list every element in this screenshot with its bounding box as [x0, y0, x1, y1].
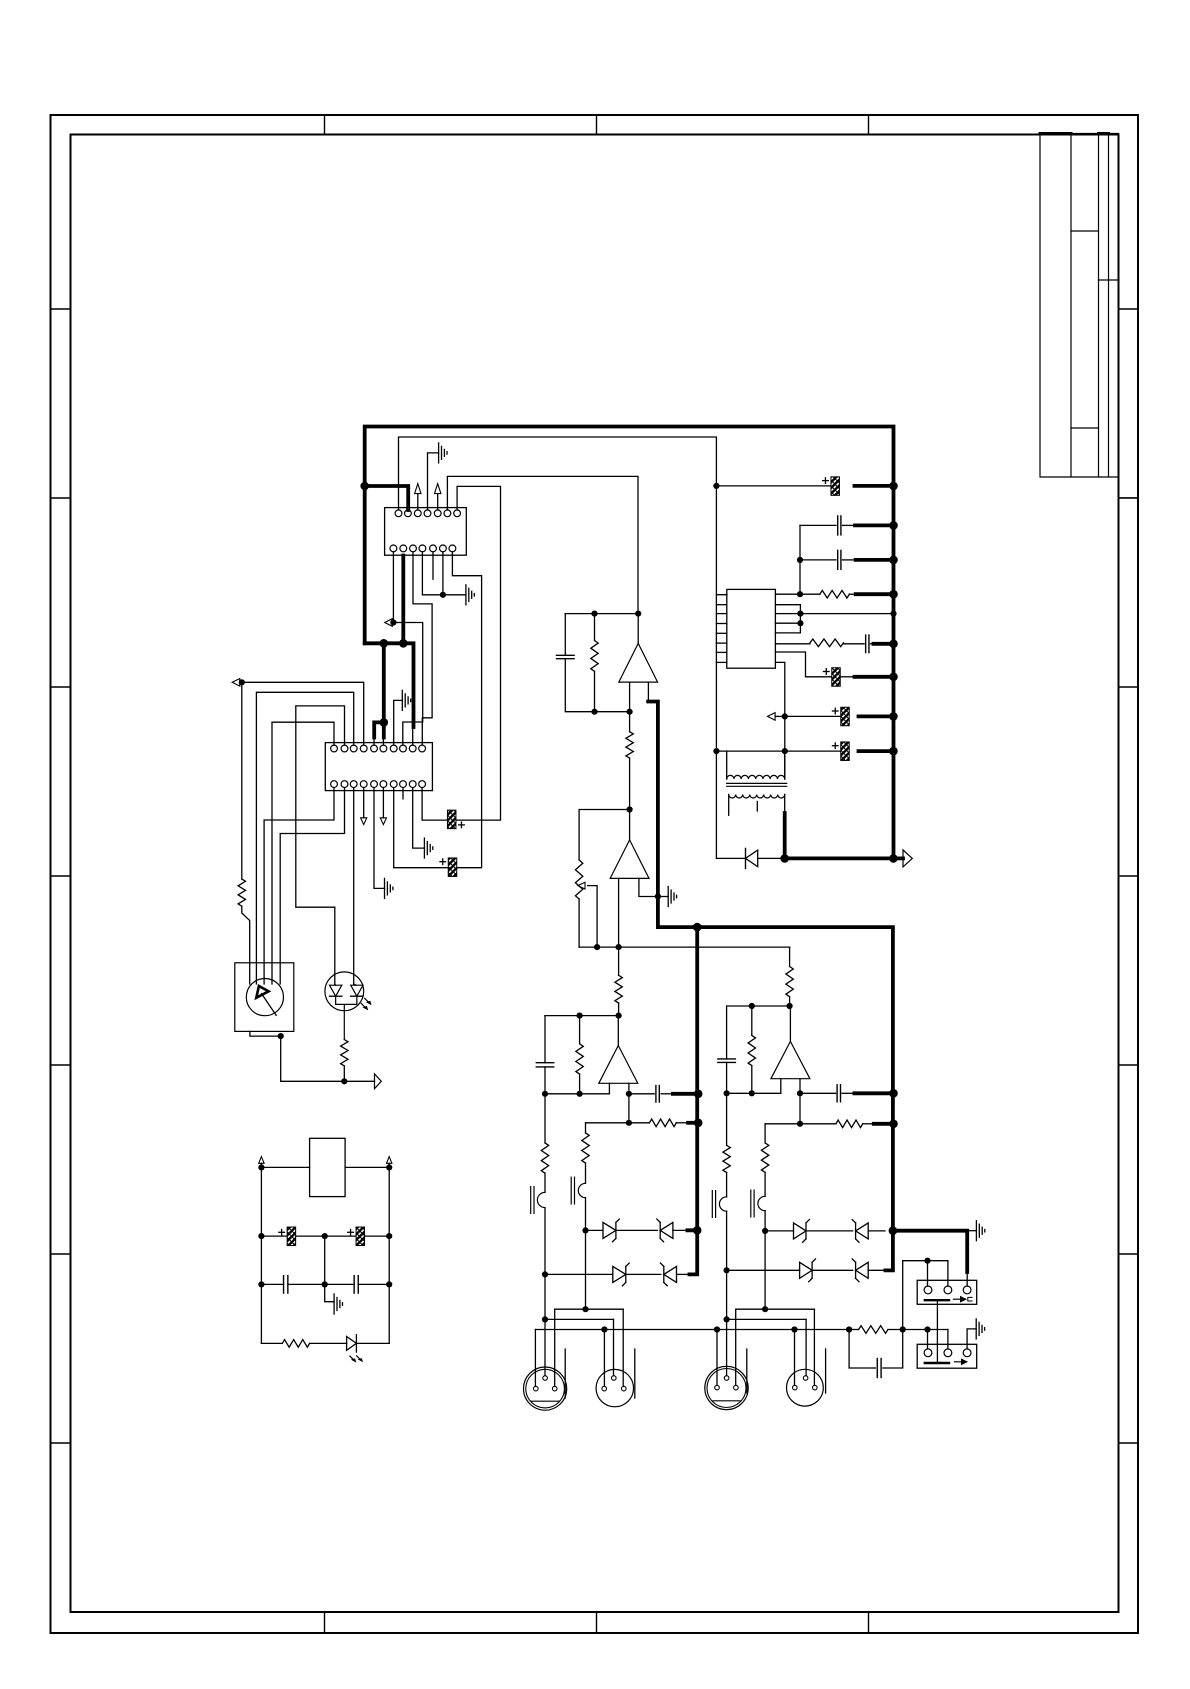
capacitor C20 electrolytic: [841, 742, 850, 761]
J2 bar mark: [925, 1362, 949, 1364]
U2 bottom pin 2: [341, 781, 348, 788]
zener D10: [856, 1262, 869, 1278]
node bus1 mid: [582, 1306, 588, 1312]
J2 terminal 2: [944, 1349, 952, 1357]
XLR connector X1 shell: [524, 1367, 567, 1410]
wire U2-b2 to meter: [280, 788, 344, 984]
node T1 row: [542, 1271, 548, 1277]
wire U2-t2 loop to LED D5 anode-left: [296, 706, 345, 984]
wire gnd rail to X1 pin1: [534, 1330, 536, 1387]
bold wire U1 area lower bus: [365, 556, 414, 738]
IC U1 body: [385, 508, 467, 556]
wire A3 to resistor row: [628, 1094, 630, 1123]
node R4 top: [591, 611, 597, 617]
wire U1-t6 loop to A1 rail: [447, 476, 638, 613]
wire A3 output: [617, 1016, 619, 1046]
wire U1-t7 loop to U2-b10 via C9: [455, 486, 500, 820]
U1 bottom pin 1: [390, 545, 397, 552]
X4 pin1: [793, 1385, 798, 1390]
U2 bottom pin 7: [390, 781, 397, 788]
diode D11: [716, 857, 745, 859]
wire U2-t6 lead: [382, 738, 384, 746]
bold lead C20 to bus: [859, 749, 894, 753]
zener D9: [800, 1262, 813, 1278]
resistor R11 chain: [544, 1094, 546, 1143]
U2 top pin 1: [331, 745, 338, 752]
terminal block J1: [917, 1280, 977, 1304]
node row2R: [797, 1121, 803, 1127]
meter M1 body box: [235, 963, 294, 1032]
wire A1 inverting input rail: [595, 711, 630, 713]
resistor R6 to left channel: [618, 947, 620, 975]
bold branch to U1 pin2: [365, 486, 409, 510]
node T5 left top: [713, 748, 719, 754]
title block outline: [1040, 134, 1119, 478]
capacitor C1 electrolytic: [831, 477, 840, 496]
capacitor C6 coupling: [800, 1092, 836, 1094]
trimmer RV1 wiper arrow: [578, 882, 585, 889]
U3 left pin 4: [716, 632, 726, 634]
X1 pin1: [534, 1386, 539, 1391]
wire bus1R to X3 pin3: [735, 1309, 737, 1385]
frame zone tick right 7: [1119, 1442, 1139, 1444]
bold node rect: [780, 854, 789, 863]
capacitor C17: [844, 643, 865, 645]
wire A1 top rail: [565, 613, 638, 615]
bold analog return net from A1: [648, 702, 893, 1271]
wire J2 pin3 to ground SG8: [967, 1329, 976, 1349]
capacitor C15: [800, 559, 836, 561]
wire bus1R to X4 pin3: [813, 1309, 815, 1385]
wire meter rail to connector arrow N3: [281, 1080, 375, 1082]
wire A1 output: [637, 614, 639, 644]
right diode row 1: [762, 1228, 768, 1234]
U2 top pin 7: [390, 745, 397, 752]
capacitor C2 branch: [564, 614, 566, 656]
wire J1 bar to J2 bar: [936, 1301, 938, 1362]
bold junction node C: [399, 639, 408, 648]
wire bus2 to X2 pin2: [613, 1319, 615, 1375]
capacitor C16: [800, 524, 836, 526]
left channel resistor row: [586, 1122, 650, 1124]
wire arrow row: [775, 715, 841, 717]
title block divider 2: [1099, 279, 1119, 281]
wire U1-b4/b6 to ground SG2: [422, 552, 466, 595]
op-amp A3: [599, 1046, 638, 1084]
bold node row1 right: [889, 1226, 898, 1235]
wire U3 right pin row1 to divider: [775, 593, 800, 595]
frame zone tick left 1: [51, 308, 71, 310]
bold lead C18 to bus: [855, 675, 894, 679]
frame zone tick left 6: [51, 1253, 71, 1255]
node row2: [626, 1120, 632, 1126]
title block divider 1: [1071, 230, 1099, 232]
zener D8: [856, 1223, 869, 1239]
wire U1-b1 net with left connector arrow: [392, 552, 394, 623]
node cap rail junction: [713, 483, 719, 489]
node bus2 left: [542, 1316, 548, 1322]
net connector arrow N1: [385, 619, 393, 627]
resistor R17: [800, 593, 820, 595]
J1 arrow mark: [954, 1298, 961, 1300]
meter M1 dial: [246, 979, 283, 1016]
wire U2-b8 stub: [402, 788, 404, 799]
zener D1: [603, 1222, 616, 1238]
U3 left pin 2: [716, 613, 726, 615]
node U3 r3: [797, 620, 803, 626]
resistor R7 to right channel: [789, 947, 791, 966]
node R8 bottom: [577, 1091, 583, 1097]
wire U2-t1 loop to meter: [272, 722, 334, 984]
resistor R8: [579, 1016, 581, 1044]
wire U3 pins to node row: [775, 605, 893, 633]
LED D5 body: [325, 972, 364, 1011]
wire T5 top rail: [716, 750, 784, 752]
bold node C19: [889, 712, 898, 721]
power arrow P2 at U1 pin t5: [435, 484, 441, 494]
node C11 left: [258, 1233, 264, 1239]
drawing frame inner border: [71, 135, 1119, 1613]
resistor R3: [261, 1342, 282, 1344]
U3 left pin 3: [716, 623, 726, 625]
resistor R2: [341, 1040, 348, 1066]
bold node row1 left: [693, 1226, 702, 1235]
frame zone tick left 5: [51, 1064, 71, 1066]
frame zone tick bottom 1: [324, 1612, 326, 1633]
resistor R1: [238, 879, 245, 906]
LED D5 right diode: [351, 985, 363, 996]
meter M1 needle arrowhead: [256, 986, 268, 998]
wire U1-t1 to U3 common rail: [399, 437, 728, 595]
wire A3 left input: [608, 1083, 610, 1094]
U1 top pin 1: [395, 510, 402, 517]
LED D5 left diode: [330, 985, 342, 996]
XLR bus2R row: [727, 1318, 807, 1320]
bold junction node D: [380, 718, 389, 727]
wire U3 r4 row: [775, 643, 810, 645]
op-amp A4: [771, 1041, 810, 1078]
bold lead C4 to bus: [673, 1092, 698, 1096]
U3 left pin 1: [716, 604, 726, 606]
U2 top pin 10: [419, 745, 426, 752]
X3 pin3: [734, 1385, 739, 1390]
node cap row T5: [782, 748, 788, 754]
frame zone tick right 1: [1119, 308, 1139, 310]
ground SG1 at U1 pin t4: [428, 453, 439, 510]
capacitor C19 electrolytic: [841, 707, 850, 726]
wire bus2 to X1 pin2: [544, 1319, 546, 1375]
inductor T2 left: [578, 1183, 585, 1197]
node gnd X4: [791, 1326, 797, 1332]
frame zone tick bottom 2: [596, 1612, 598, 1633]
node P3: [258, 1164, 264, 1170]
U1 top pin 4: [424, 510, 431, 517]
U2 bottom pin 3: [350, 781, 357, 788]
X4 pin3: [813, 1385, 818, 1390]
node C11/C12: [322, 1233, 328, 1239]
regulator U4 body: [310, 1138, 346, 1196]
bold node R9: [694, 1119, 703, 1128]
wire U2-b3 to LED D5 anode-right: [353, 788, 355, 984]
X1 pin2: [543, 1376, 548, 1381]
resistor R10 chain: [585, 1123, 587, 1133]
capacitor C12 electrolytic: [325, 1235, 356, 1237]
wire T3 chain down: [726, 1270, 728, 1319]
U3 left pin 6: [716, 651, 726, 653]
node gnd R16 left: [846, 1326, 852, 1332]
ground SG2: [465, 585, 467, 605]
bold lead C1 to bus: [855, 484, 894, 488]
node C13/C14: [322, 1281, 328, 1287]
terminal block J2: [917, 1344, 977, 1368]
node A1 in: [627, 709, 633, 715]
wire U4 output: [345, 1166, 389, 1168]
wire bus2R to X4 pin2: [805, 1319, 807, 1375]
node J1 pin1: [924, 1258, 930, 1264]
wire T2 chain down: [585, 1230, 587, 1309]
wire J1 pin3 bold lead: [966, 1272, 968, 1286]
U2 top pin 6: [380, 745, 387, 752]
node R4 bottom: [591, 709, 597, 715]
frame zone tick left 7: [51, 1442, 71, 1444]
bold node R13: [889, 1120, 898, 1129]
U2 top pin 9: [409, 745, 416, 752]
node cap C15: [797, 557, 803, 563]
frame zone tick right 3: [1119, 686, 1139, 688]
wire A4 input rail: [727, 1092, 781, 1094]
U1 top pin 3: [414, 510, 421, 517]
frame zone tick right 5: [1119, 1064, 1139, 1066]
power arrow P3: [259, 1157, 264, 1164]
wire A2 output: [629, 810, 631, 840]
wire A4 output: [789, 1006, 791, 1041]
wire PSU mid rail: [325, 1236, 334, 1302]
U2 top pin 5: [371, 745, 378, 752]
bold node C17: [889, 640, 898, 649]
IC U3 body: [727, 589, 776, 668]
capacitor C7 bypass around R16: [849, 1330, 875, 1369]
node P4: [386, 1164, 392, 1170]
XLR bus1R row: [736, 1308, 815, 1310]
ground SG3 at U2 pin t7: [394, 700, 403, 745]
resistor R16 in ground rail: [849, 1329, 859, 1331]
wire U3 r6 to transformer: [775, 662, 784, 779]
trimmer RV1: [575, 860, 582, 899]
J1 terminal 3: [963, 1286, 971, 1294]
wire gnd rail to X4 pin1: [794, 1330, 796, 1386]
U2 bottom pin 1: [331, 781, 338, 788]
X4 pin2: [803, 1376, 808, 1381]
wire gnd lead: [658, 896, 668, 898]
T5 secondary right lead: [784, 795, 786, 814]
U1 bottom pin 7: [449, 545, 456, 552]
node gnd R16 right: [900, 1326, 906, 1332]
zener D4: [664, 1266, 677, 1282]
ground SG7: [667, 887, 669, 907]
node R-rail R12: [749, 1003, 755, 1009]
U2 top pin 2: [341, 745, 348, 752]
capacitor C4 coupling: [629, 1093, 654, 1095]
X2 pin1: [602, 1386, 607, 1391]
U1 bottom pin 3: [410, 545, 417, 552]
frame zone tick top 3: [868, 115, 870, 135]
wire cap row C1: [716, 485, 830, 487]
resistor R9: [649, 1119, 676, 1127]
XLR connector X4 shell: [787, 1369, 824, 1406]
wire block J1 feed rail: [903, 1261, 948, 1330]
X1 pin3: [552, 1386, 557, 1391]
meter M1 needle: [262, 994, 277, 1016]
node A1 out: [635, 611, 641, 617]
wire A3 right input: [628, 1083, 630, 1094]
U2 bottom pin 4: [360, 781, 367, 788]
inductor T4 left: [758, 1196, 765, 1210]
node gnd block: [924, 1326, 930, 1332]
node gnd X3: [714, 1326, 720, 1332]
wire U2-b9 to ground SG5: [413, 788, 425, 849]
trimmer RV1 wiper wire: [588, 886, 598, 948]
wire bus1 to X1 pin3: [554, 1309, 556, 1386]
node bus1R mid: [762, 1306, 768, 1312]
net connector arrow N3: [375, 1074, 382, 1089]
op-amp A2: [610, 840, 649, 879]
U1 top pin 5: [434, 510, 441, 517]
bold junction node E: [693, 923, 702, 932]
title block divider 4: [1119, 497, 1139, 499]
wire U3 common vertical: [715, 595, 717, 859]
wire A1 left input: [629, 682, 631, 712]
node C3 bottom: [542, 1091, 548, 1097]
left channel top rail: [545, 1015, 619, 1017]
node L-rail R8: [577, 1013, 583, 1019]
node C5 bottom: [724, 1090, 730, 1096]
X2 shell stub: [634, 1349, 636, 1398]
frame zone tick top 2: [596, 115, 598, 135]
net connector arrow N2: [232, 679, 240, 687]
bold node C1/bus: [889, 482, 898, 491]
bold left-channel return branch: [688, 927, 698, 1274]
power arrow P1 at U1 pin t3: [415, 484, 421, 494]
bold lead C17 to bus: [874, 642, 894, 646]
frame zone tick bottom 3: [868, 1612, 870, 1633]
T5 center tap: [756, 802, 758, 812]
resistor R15 chain: [726, 1093, 728, 1145]
frame zone tick left 4: [51, 875, 71, 877]
node R12 bottom: [749, 1090, 755, 1096]
frame zone tick left 3: [51, 686, 71, 688]
node A4 right in: [797, 1090, 803, 1096]
U3 left pin 5: [716, 642, 726, 644]
X2 pin3: [622, 1386, 627, 1391]
U2 top pin 3: [350, 745, 357, 752]
U1 top pin 7: [454, 510, 461, 517]
node LED return: [341, 1078, 347, 1084]
node U3 r2: [797, 611, 803, 617]
X3 pin1: [715, 1385, 720, 1390]
bold power bus net VCC top and right rail: [365, 427, 894, 859]
bold lead C15 to bus: [856, 558, 894, 562]
zener D7: [794, 1223, 807, 1239]
capacitor C13: [261, 1283, 283, 1285]
wire A1 right input: [647, 682, 649, 701]
U2 top pin 4: [360, 745, 367, 752]
wire bus2R to X3 pin2: [726, 1319, 728, 1375]
title block top emphasis: [1040, 132, 1109, 135]
op-amp A1: [619, 643, 658, 682]
capacitor C9 electrolytic: [447, 810, 456, 829]
LED D5 emission arrows: [361, 998, 369, 1008]
wire U4 input: [261, 1166, 309, 1168]
wire U2-t9 lead: [412, 727, 414, 745]
node bus thin: [890, 611, 896, 617]
wire U1-b3 to U2-t10: [413, 552, 432, 745]
node A2 out: [627, 806, 633, 812]
wire R3 to LED D6: [310, 1342, 347, 1344]
U2 bottom pin 8: [400, 781, 407, 788]
frame zone tick top 1: [324, 115, 326, 135]
wire J2 pin2 lead: [947, 1330, 949, 1349]
node C12 right: [386, 1233, 392, 1239]
IC U2 body: [325, 743, 432, 791]
capacitor C5 branch: [726, 1006, 728, 1059]
bold node C15: [889, 556, 898, 565]
zener D2: [660, 1222, 673, 1238]
U1 top pin 2: [405, 510, 412, 517]
X3 shell stub: [746, 1349, 748, 1393]
power arrow P4: [387, 1157, 392, 1164]
resistor R5: [629, 712, 631, 732]
wire U2-b4 with down arrow: [363, 788, 365, 818]
wire U2-b1 to meter: [264, 788, 334, 984]
bold junction node A: [360, 482, 369, 491]
node bus2R left: [724, 1316, 730, 1322]
wire J1 pin1 lead: [927, 1261, 929, 1286]
wire U2-b6 with down arrow: [382, 788, 384, 818]
wire A2 left input: [618, 878, 620, 947]
X1 shell stub: [564, 1349, 566, 1398]
wire U2-b5 to ground SG4: [374, 788, 385, 889]
inductor T3 left: [719, 1197, 726, 1211]
node T3 row: [724, 1267, 730, 1273]
bold lead C16 to bus: [855, 524, 894, 528]
J2 terminal 3: [963, 1349, 971, 1357]
U3 left pin 7: [716, 661, 726, 663]
wire divider vertical: [799, 525, 801, 594]
wire U2-t5 lead: [373, 738, 375, 746]
wire A2 feedback to trimmer: [579, 810, 630, 861]
J1 terminal 1: [924, 1286, 932, 1294]
wire U3 r5 row: [775, 652, 831, 677]
X3 chord: [713, 1400, 740, 1402]
wire PSU left rail: [260, 1167, 262, 1343]
U1 bottom pin 2: [400, 545, 407, 552]
X3 pin2: [724, 1376, 729, 1381]
LED D6 emission arrows: [350, 1356, 361, 1361]
J2 terminal 1: [924, 1349, 932, 1357]
inductor T1 left: [537, 1192, 545, 1207]
node C14 right: [386, 1281, 392, 1287]
X1 chord: [531, 1400, 559, 1402]
wire gnd rail to X2 pin1: [603, 1330, 605, 1387]
capacitor C14: [325, 1283, 355, 1285]
capacitor C18 electrolytic: [832, 668, 841, 687]
node meter out: [278, 1033, 284, 1039]
net connector arrow N5: [903, 850, 912, 867]
U2 bottom pin 6: [380, 781, 387, 788]
common ground rail: [535, 1329, 948, 1331]
bold rectified output: [785, 813, 894, 858]
bold node C20: [889, 747, 898, 756]
